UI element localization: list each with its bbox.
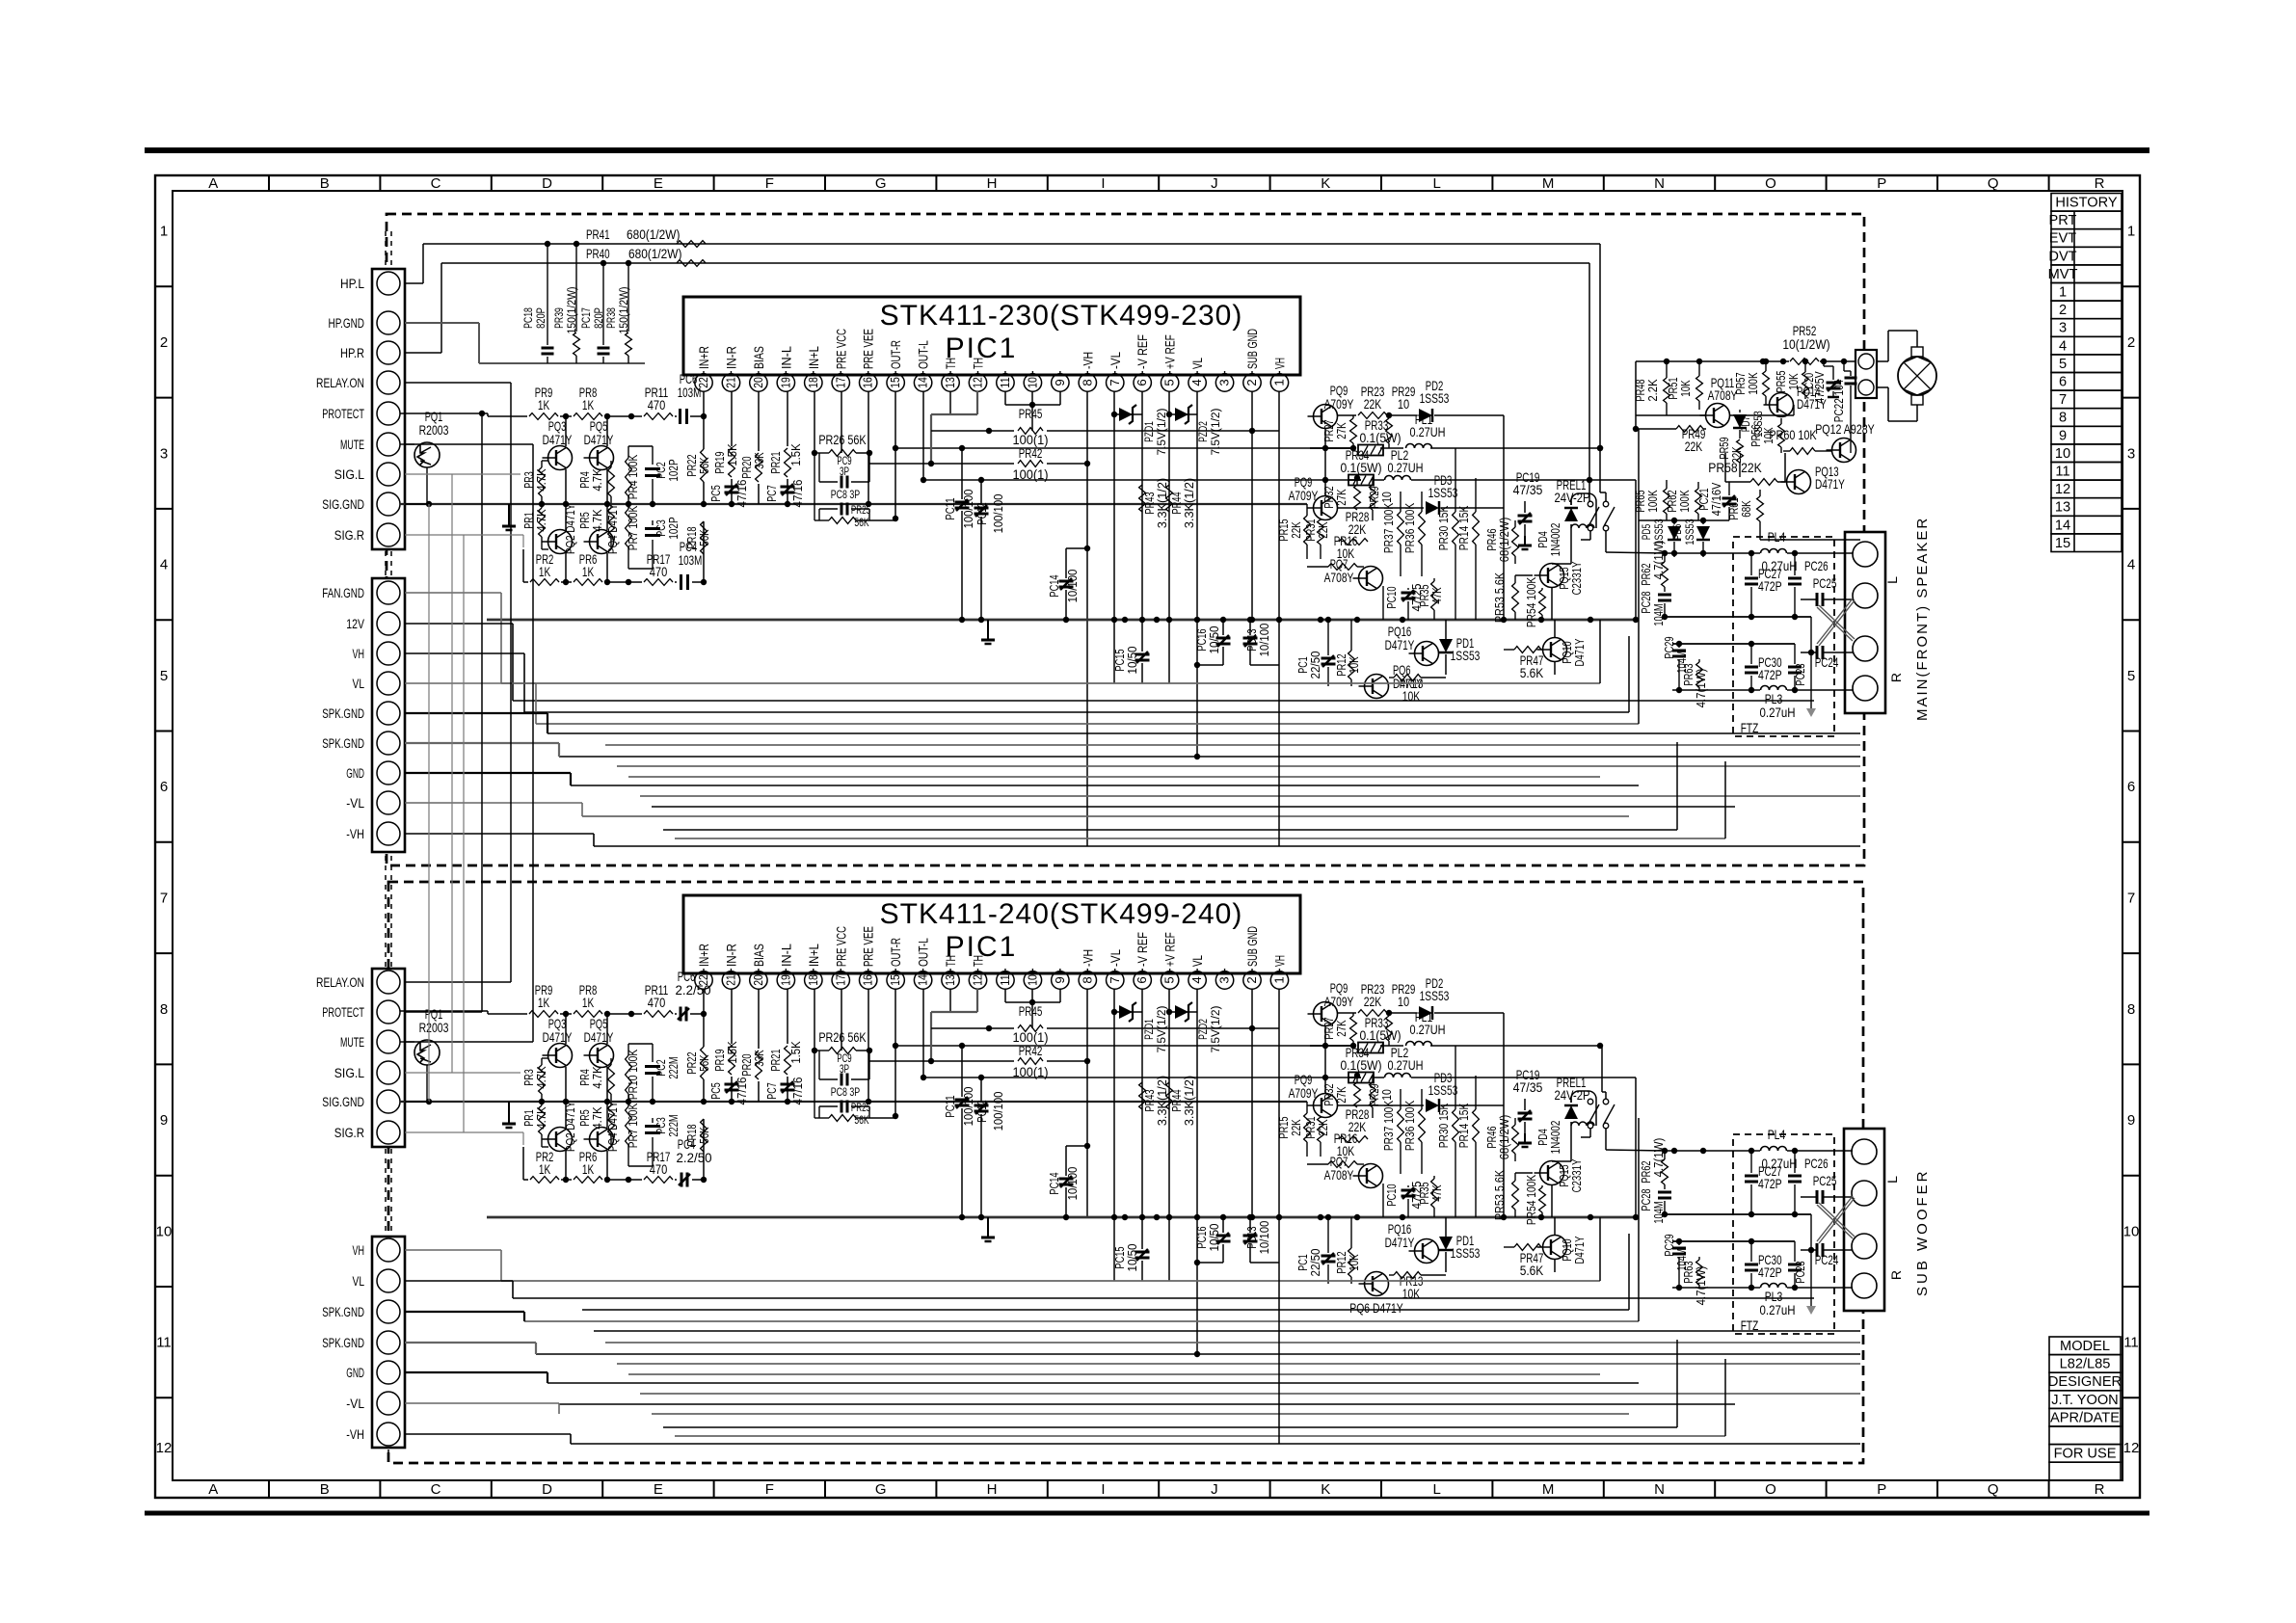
wire pin17 drop a bbox=[841, 391, 842, 453]
svg-text:1SS53: 1SS53 bbox=[1652, 519, 1666, 545]
svg-text:IN+R: IN+R bbox=[697, 944, 711, 967]
svg-text:PZD1: PZD1 bbox=[1142, 1019, 1156, 1040]
svg-text:12: 12 bbox=[156, 1440, 173, 1456]
wire SIG.GND bus b bbox=[400, 1101, 1307, 1103]
wire pin19 drop a bbox=[787, 391, 788, 446]
svg-text:C: C bbox=[431, 175, 441, 192]
svg-text:C: C bbox=[431, 1481, 441, 1498]
svg-text:SPK.GND: SPK.GND bbox=[322, 736, 364, 752]
svg-text:22K: 22K bbox=[1364, 396, 1382, 412]
svg-text:PR7 100K: PR7 100K bbox=[626, 506, 640, 551]
transistor PQ2 D471Y b bbox=[548, 1128, 573, 1152]
svg-text:TH: TH bbox=[972, 358, 986, 369]
svg-text:47/35: 47/35 bbox=[1513, 482, 1543, 497]
svg-text:22/50: 22/50 bbox=[1308, 1249, 1322, 1277]
svg-text:17: 17 bbox=[833, 377, 847, 388]
svg-text:8: 8 bbox=[2127, 1001, 2135, 1018]
transistor PQ4 D471Y a bbox=[590, 530, 614, 554]
svg-text:68(1/2W): 68(1/2W) bbox=[1497, 518, 1511, 563]
svg-text:TH: TH bbox=[944, 955, 958, 967]
svg-text:G: G bbox=[875, 1481, 887, 1498]
svg-text:L: L bbox=[1433, 1481, 1441, 1498]
svg-text:19: 19 bbox=[778, 974, 792, 986]
svg-text:PL4: PL4 bbox=[1768, 1127, 1786, 1142]
svg-text:100(1): 100(1) bbox=[1013, 1064, 1049, 1079]
ground stub on bus a bbox=[987, 620, 989, 632]
svg-text:11: 11 bbox=[2123, 1335, 2139, 1351]
svg-text:12: 12 bbox=[2055, 482, 2070, 497]
svg-text:C2331Y: C2331Y bbox=[1569, 1158, 1584, 1192]
svg-text:2: 2 bbox=[2127, 334, 2135, 351]
wire HP.L bbox=[405, 282, 423, 284]
svg-text:8: 8 bbox=[2059, 411, 2067, 426]
svg-text:1K: 1K bbox=[539, 564, 551, 579]
svg-text:56K: 56K bbox=[697, 457, 711, 474]
wire filter mid b bbox=[1665, 1213, 1811, 1215]
svg-text:D471Y: D471Y bbox=[543, 432, 573, 447]
wire pin2 drop b bbox=[1251, 989, 1253, 1217]
svg-text:IN-L: IN-L bbox=[779, 944, 793, 967]
transistor PQ10 D471Y b bbox=[1543, 1236, 1567, 1260]
svg-text:4: 4 bbox=[1189, 976, 1204, 983]
wire pin6 drop b bbox=[1141, 989, 1143, 1217]
svg-text:10: 10 bbox=[1025, 974, 1039, 986]
wire pin17 drop b bbox=[841, 989, 842, 1051]
svg-text:E: E bbox=[654, 175, 663, 192]
svg-text:PR26 56K: PR26 56K bbox=[818, 1029, 867, 1045]
svg-text:8: 8 bbox=[160, 1001, 168, 1018]
svg-text:3: 3 bbox=[2127, 445, 2135, 462]
svg-text:6: 6 bbox=[2059, 375, 2067, 390]
transistor PQ6 D471Y a bbox=[1365, 675, 1389, 699]
svg-text:5: 5 bbox=[2059, 357, 2067, 372]
svg-text:HP.R: HP.R bbox=[340, 346, 364, 361]
svg-text:1K: 1K bbox=[538, 397, 550, 412]
ground near SIG.GND b bbox=[508, 1102, 510, 1114]
svg-text:FAN.GND: FAN.GND bbox=[322, 586, 364, 601]
wire right verticals b2 bbox=[1599, 1217, 1601, 1281]
svg-text:A709Y: A709Y bbox=[1324, 396, 1354, 412]
svg-text:J.T. YOON: J.T. YOON bbox=[2051, 1393, 2118, 1408]
svg-text:DVT: DVT bbox=[2048, 249, 2076, 264]
svg-text:13: 13 bbox=[2055, 500, 2070, 516]
svg-text:27K: 27K bbox=[1334, 1086, 1348, 1104]
svg-text:5: 5 bbox=[160, 668, 168, 684]
svg-text:10/100: 10/100 bbox=[1257, 624, 1271, 657]
svg-text:VL: VL bbox=[1190, 955, 1205, 967]
svg-text:9: 9 bbox=[160, 1112, 168, 1129]
wire pin18 drop a bbox=[814, 391, 815, 453]
svg-text:G: G bbox=[875, 175, 887, 192]
wire pin16 drop a bbox=[868, 391, 869, 468]
wire PR41 line bbox=[423, 243, 1600, 245]
svg-text:1SS53: 1SS53 bbox=[1683, 519, 1696, 545]
svg-text:47/35: 47/35 bbox=[1513, 1079, 1543, 1095]
svg-text:-VL: -VL bbox=[346, 796, 364, 811]
wire pin15 drop a bbox=[894, 391, 896, 519]
svg-text:MODEL: MODEL bbox=[2060, 1339, 2110, 1354]
svg-text:R: R bbox=[2095, 175, 2105, 192]
wire filter lower a bbox=[1672, 643, 1795, 645]
svg-text:D471Y: D471Y bbox=[1815, 476, 1845, 492]
svg-text:680(1/2W): 680(1/2W) bbox=[627, 226, 680, 242]
svg-text:3.3K(1/2): 3.3K(1/2) bbox=[1155, 1076, 1169, 1126]
svg-text:PR40: PR40 bbox=[586, 246, 610, 261]
wire pin1 drop a bbox=[1278, 391, 1280, 431]
wire PQ3 collector b bbox=[565, 1014, 567, 1044]
svg-text:14: 14 bbox=[916, 974, 930, 986]
svg-text:IN+R: IN+R bbox=[697, 346, 711, 369]
svg-text:18: 18 bbox=[806, 974, 820, 986]
svg-text:I: I bbox=[1101, 175, 1105, 192]
svg-text:16: 16 bbox=[861, 377, 875, 388]
svg-text:PC17: PC17 bbox=[579, 307, 593, 329]
svg-text:PRE VCC: PRE VCC bbox=[834, 329, 848, 369]
svg-text:2: 2 bbox=[1244, 379, 1259, 386]
svg-text:PR25: PR25 bbox=[851, 505, 870, 517]
dashed link connector C to D bbox=[385, 1149, 387, 1235]
frame outer rectangle bbox=[155, 175, 2140, 1498]
svg-text:D471Y: D471Y bbox=[1572, 1236, 1587, 1264]
svg-text:470: 470 bbox=[650, 564, 668, 579]
wire SIG.GND link bbox=[405, 503, 429, 505]
svg-text:7.5V(1/2): 7.5V(1/2) bbox=[1209, 408, 1222, 455]
svg-text:PR30 15K: PR30 15K bbox=[1436, 1104, 1451, 1149]
svg-text:PR14 15K: PR14 15K bbox=[1456, 1104, 1471, 1149]
wire RELAY.ON vertical bbox=[405, 382, 511, 384]
wire pin14 drop a bbox=[922, 391, 924, 480]
svg-text:C2331Y: C2331Y bbox=[1569, 561, 1584, 595]
wire bottom rail a bbox=[523, 581, 528, 583]
dots bottom rail b bbox=[563, 1177, 569, 1183]
svg-text:VL: VL bbox=[353, 1274, 365, 1290]
svg-text:2.2/50: 2.2/50 bbox=[677, 1150, 712, 1165]
svg-text:A: A bbox=[208, 175, 218, 192]
svg-text:9: 9 bbox=[1053, 379, 1067, 386]
wire speaker cross b bbox=[1817, 1205, 1853, 1238]
wire pin16 drop b bbox=[868, 989, 869, 1066]
svg-text:102P: 102P bbox=[666, 517, 681, 539]
svg-text:6: 6 bbox=[1135, 379, 1149, 386]
svg-text:SPK.GND: SPK.GND bbox=[322, 706, 364, 722]
svg-text:22/50: 22/50 bbox=[1308, 652, 1322, 679]
wire staircase block2 bbox=[405, 1249, 501, 1251]
wire protect rail b bbox=[400, 1010, 488, 1012]
wire pin1 drop b bbox=[1278, 989, 1280, 1028]
block 1 dashed boundary (main amp) bbox=[387, 214, 1864, 865]
wire pin22 drop a bbox=[703, 391, 705, 449]
svg-text:100K: 100K bbox=[1746, 372, 1760, 394]
svg-text:PC26: PC26 bbox=[1804, 1156, 1829, 1171]
svg-text:VH: VH bbox=[353, 647, 365, 662]
svg-text:O: O bbox=[1765, 175, 1776, 192]
wire pin4 drop b bbox=[1196, 989, 1198, 1354]
svg-text:680(1/2W): 680(1/2W) bbox=[628, 246, 681, 261]
svg-text:FOR USE: FOR USE bbox=[2054, 1447, 2117, 1462]
svg-text:SPK.GND: SPK.GND bbox=[322, 1305, 364, 1320]
svg-text:472P: 472P bbox=[1758, 1176, 1782, 1191]
svg-text:7: 7 bbox=[1108, 976, 1122, 983]
svg-text:STK411-240(STK499-240): STK411-240(STK499-240) bbox=[880, 898, 1243, 930]
svg-text:PD6: PD6 bbox=[1670, 524, 1684, 540]
svg-text:PC26: PC26 bbox=[1804, 558, 1829, 573]
svg-text:PROTECT: PROTECT bbox=[322, 407, 364, 422]
transistor PQ14 D471Y bbox=[1770, 393, 1794, 417]
svg-text:1SS53: 1SS53 bbox=[1451, 648, 1481, 663]
wire pin18 link b bbox=[814, 1051, 815, 1118]
svg-text:10: 10 bbox=[2123, 1223, 2140, 1239]
svg-text:7: 7 bbox=[1108, 379, 1122, 386]
svg-text:PC5: PC5 bbox=[708, 1082, 723, 1099]
svg-text:0.27UH: 0.27UH bbox=[1410, 424, 1446, 439]
svg-text:10K: 10K bbox=[1678, 380, 1693, 397]
wire main ground bus b bbox=[487, 1216, 1636, 1219]
transistor PQ4 D471Y b bbox=[590, 1128, 614, 1152]
svg-text:PZD2: PZD2 bbox=[1196, 421, 1210, 442]
svg-text:TH: TH bbox=[944, 358, 958, 369]
svg-text:1K: 1K bbox=[582, 564, 595, 579]
hybrid IC U2 STK411-240 box bbox=[683, 895, 1300, 973]
svg-text:14: 14 bbox=[916, 377, 930, 388]
wire relay to output a bbox=[1605, 531, 1607, 552]
svg-text:PC10: PC10 bbox=[1384, 586, 1399, 608]
svg-text:0.27uH: 0.27uH bbox=[1760, 1302, 1796, 1317]
svg-text:PZD1: PZD1 bbox=[1142, 421, 1156, 442]
junction dots top rail a bbox=[563, 413, 569, 419]
arrow drain a bbox=[1806, 708, 1816, 717]
svg-text:0.1(5W): 0.1(5W) bbox=[1359, 1027, 1401, 1043]
svg-text:VH: VH bbox=[353, 1243, 365, 1259]
svg-text:2: 2 bbox=[160, 334, 168, 351]
MODEL title block table bbox=[2049, 1337, 2121, 1355]
wire SIG.L vertical bbox=[405, 473, 521, 475]
svg-text:D471Y: D471Y bbox=[1385, 637, 1415, 652]
svg-text:-VL: -VL bbox=[1108, 949, 1123, 967]
svg-text:PR45: PR45 bbox=[1019, 406, 1043, 421]
svg-text:D: D bbox=[542, 1481, 552, 1498]
svg-text:8: 8 bbox=[1080, 976, 1094, 983]
svg-text:PR21: PR21 bbox=[768, 451, 783, 473]
svg-text:222M: 222M bbox=[666, 1114, 681, 1136]
arrow drain b bbox=[1806, 1306, 1816, 1315]
wire VH long drop a bbox=[1278, 431, 1280, 846]
svg-text:5: 5 bbox=[1162, 976, 1177, 983]
wire PQ3 collector a bbox=[565, 416, 567, 446]
svg-text:470: 470 bbox=[650, 1161, 668, 1177]
svg-text:11: 11 bbox=[998, 974, 1012, 986]
svg-text:7.5V(1/2): 7.5V(1/2) bbox=[1155, 408, 1168, 455]
svg-text:P: P bbox=[1877, 1481, 1886, 1498]
svg-text:TH: TH bbox=[972, 955, 986, 967]
wire right verticals b1 bbox=[1599, 620, 1601, 683]
svg-text:L82/L85: L82/L85 bbox=[2060, 1357, 2111, 1372]
IC U2 pins 22-1 bbox=[695, 971, 712, 989]
top border rule bbox=[145, 147, 2149, 153]
svg-text:1.5K: 1.5K bbox=[788, 1041, 803, 1063]
svg-text:0.27UH: 0.27UH bbox=[1388, 460, 1424, 475]
svg-text:-VH: -VH bbox=[346, 827, 364, 842]
svg-text:D471Y: D471Y bbox=[1572, 638, 1587, 666]
wire SIG.R vertical bbox=[405, 534, 523, 536]
connector fan 2-pin bbox=[1855, 350, 1877, 398]
svg-text:10: 10 bbox=[1025, 377, 1039, 388]
svg-text:47/16V: 47/16V bbox=[1709, 482, 1723, 516]
svg-text:B: B bbox=[320, 175, 330, 192]
svg-text:3.3K(1/2): 3.3K(1/2) bbox=[1182, 478, 1196, 528]
svg-text:PR36 100K: PR36 100K bbox=[1402, 503, 1417, 553]
svg-text:PR26 56K: PR26 56K bbox=[818, 432, 867, 447]
wire pin4 drop a bbox=[1196, 391, 1198, 757]
svg-text:0.27uH: 0.27uH bbox=[1760, 705, 1796, 720]
svg-text:SUB WOOFER: SUB WOOFER bbox=[1914, 1168, 1931, 1296]
svg-text:SIG.GND: SIG.GND bbox=[322, 1095, 364, 1110]
svg-text:1: 1 bbox=[160, 224, 168, 240]
svg-text:F: F bbox=[765, 175, 774, 192]
filter dashed box FTZ a bbox=[1733, 537, 1834, 736]
svg-text:1N4002: 1N4002 bbox=[1548, 1121, 1562, 1155]
wire pin20 drop a bbox=[758, 391, 760, 451]
connector P4 (sub power) bbox=[372, 1237, 405, 1448]
svg-text:10/50: 10/50 bbox=[1207, 626, 1221, 654]
wire pin5 drop b bbox=[1168, 989, 1170, 1281]
svg-text:100K: 100K bbox=[1677, 490, 1692, 512]
svg-text:9: 9 bbox=[2127, 1112, 2135, 1129]
wire MUTE vertical bbox=[405, 443, 533, 445]
svg-text:15: 15 bbox=[2055, 536, 2070, 551]
svg-text:PR53 5.6K: PR53 5.6K bbox=[1492, 572, 1507, 623]
svg-text:7: 7 bbox=[160, 890, 168, 906]
svg-text:1SS53: 1SS53 bbox=[1420, 988, 1450, 1003]
wire filter mid a bbox=[1665, 616, 1811, 618]
svg-text:56K: 56K bbox=[854, 518, 868, 529]
svg-text:21: 21 bbox=[723, 974, 737, 986]
svg-text:PR39: PR39 bbox=[552, 307, 566, 329]
svg-text:3.3K(1/2): 3.3K(1/2) bbox=[1182, 1076, 1196, 1126]
svg-text:SPK.GND: SPK.GND bbox=[322, 1336, 364, 1351]
svg-text:12: 12 bbox=[971, 974, 985, 986]
svg-text:MUTE: MUTE bbox=[340, 1035, 364, 1051]
svg-text:R: R bbox=[1888, 673, 1904, 682]
ground stub on bus b bbox=[987, 1217, 989, 1230]
svg-text:6: 6 bbox=[2127, 779, 2135, 795]
svg-text:OUT-L: OUT-L bbox=[917, 938, 931, 967]
svg-text:IN-L: IN-L bbox=[779, 346, 793, 369]
svg-text:1SS53: 1SS53 bbox=[1451, 1245, 1481, 1261]
svg-text:P: P bbox=[1877, 175, 1886, 192]
connector MAIN speaker bbox=[1845, 532, 1885, 713]
svg-text:OUT-L: OUT-L bbox=[917, 340, 931, 369]
svg-text:STK411-230(STK499-230): STK411-230(STK499-230) bbox=[880, 300, 1243, 332]
bottom border rule bbox=[145, 1511, 2149, 1516]
wire pin20 drop b bbox=[758, 989, 760, 1049]
wire power stripe bundle b bbox=[501, 1280, 1600, 1282]
svg-text:1: 1 bbox=[2059, 285, 2067, 301]
svg-text:10/100: 10/100 bbox=[1257, 1221, 1271, 1255]
svg-text:1SS53: 1SS53 bbox=[1428, 485, 1458, 500]
svg-text:11: 11 bbox=[998, 377, 1012, 388]
svg-text:I: I bbox=[1101, 1481, 1105, 1498]
svg-text:100/100: 100/100 bbox=[991, 494, 1005, 534]
svg-text:10: 10 bbox=[1379, 1089, 1394, 1101]
wire pin7 drop a bbox=[1113, 391, 1115, 683]
svg-text:+V REF: +V REF bbox=[1163, 334, 1178, 369]
svg-text:4.7K: 4.7K bbox=[590, 1066, 604, 1088]
svg-text:MUTE: MUTE bbox=[340, 438, 364, 453]
svg-text:7.5V(1/2): 7.5V(1/2) bbox=[1155, 1005, 1168, 1052]
svg-text:-VH: -VH bbox=[346, 1427, 364, 1443]
svg-text:2: 2 bbox=[1244, 976, 1259, 983]
svg-text:2.2K: 2.2K bbox=[1645, 379, 1660, 401]
svg-text:10: 10 bbox=[156, 1223, 173, 1239]
resistor PR42 100(1) b bbox=[868, 1060, 1014, 1062]
svg-text:D471Y: D471Y bbox=[1385, 1235, 1415, 1250]
svg-text:820P: 820P bbox=[534, 307, 547, 329]
svg-text:100K: 100K bbox=[1645, 490, 1660, 512]
svg-text:33K: 33K bbox=[752, 1050, 766, 1067]
svg-text:PC22 104: PC22 104 bbox=[1832, 380, 1846, 422]
svg-text:A709Y: A709Y bbox=[1289, 488, 1319, 503]
svg-text:100(1): 100(1) bbox=[1013, 466, 1049, 482]
wire top rail a bbox=[560, 415, 572, 417]
svg-text:SIG.L: SIG.L bbox=[334, 1066, 364, 1081]
IC U1 pins 22-1 bbox=[695, 374, 712, 391]
svg-text:MVT: MVT bbox=[2048, 267, 2078, 282]
svg-text:SIG.R: SIG.R bbox=[334, 528, 364, 544]
svg-text:BIAS: BIAS bbox=[752, 346, 766, 369]
svg-text:0.27UH: 0.27UH bbox=[1410, 1022, 1446, 1037]
svg-text:27K: 27K bbox=[1334, 1020, 1348, 1037]
svg-text:A709Y: A709Y bbox=[1324, 994, 1354, 1009]
svg-text:+V REF: +V REF bbox=[1163, 932, 1178, 967]
svg-text:-VH: -VH bbox=[1081, 352, 1095, 369]
zener PZD1 7.5V(1/2) b bbox=[1114, 1011, 1142, 1013]
svg-text:7: 7 bbox=[2127, 890, 2135, 906]
svg-text:VL: VL bbox=[1190, 358, 1205, 369]
svg-text:6: 6 bbox=[160, 779, 168, 795]
svg-text:PD5: PD5 bbox=[1640, 524, 1653, 540]
dots main bus b bbox=[959, 1214, 965, 1220]
svg-text:4: 4 bbox=[2059, 338, 2067, 354]
svg-text:J: J bbox=[1211, 1481, 1218, 1498]
svg-text:A: A bbox=[208, 1481, 218, 1498]
svg-text:EVT: EVT bbox=[2049, 231, 2076, 247]
svg-text:IN-R: IN-R bbox=[724, 944, 738, 967]
svg-text:A708Y: A708Y bbox=[1324, 1167, 1354, 1183]
wire bottom rail b bbox=[523, 1179, 528, 1181]
svg-text:222M: 222M bbox=[666, 1056, 681, 1078]
svg-text:1K: 1K bbox=[582, 397, 595, 412]
svg-text:SIG.GND: SIG.GND bbox=[322, 497, 364, 513]
svg-text:4.7(1W): 4.7(1W) bbox=[1651, 1138, 1666, 1178]
svg-text:Q: Q bbox=[1988, 175, 1999, 192]
wire speaker cross a bbox=[1817, 607, 1853, 641]
svg-text:472P: 472P bbox=[1758, 578, 1782, 594]
svg-text:56K: 56K bbox=[697, 1054, 711, 1072]
svg-text:PRE VEE: PRE VEE bbox=[862, 329, 876, 369]
svg-text:A708Y: A708Y bbox=[1324, 570, 1354, 585]
svg-text:D471Y: D471Y bbox=[584, 1029, 614, 1045]
svg-text:47/25V: 47/25V bbox=[1813, 371, 1827, 404]
wire pin2 drop a bbox=[1251, 391, 1253, 620]
svg-text:-VH: -VH bbox=[1081, 949, 1095, 967]
svg-text:PR25: PR25 bbox=[851, 1103, 870, 1114]
svg-text:D471Y: D471Y bbox=[543, 1029, 573, 1045]
svg-text:0.1(5W): 0.1(5W) bbox=[1359, 430, 1401, 445]
svg-text:PC25: PC25 bbox=[1813, 1173, 1837, 1188]
connector P1 (HP/signal) bbox=[372, 269, 405, 549]
svg-text:4: 4 bbox=[2127, 557, 2135, 573]
resistor PR45 100(1) a bbox=[931, 430, 1014, 432]
